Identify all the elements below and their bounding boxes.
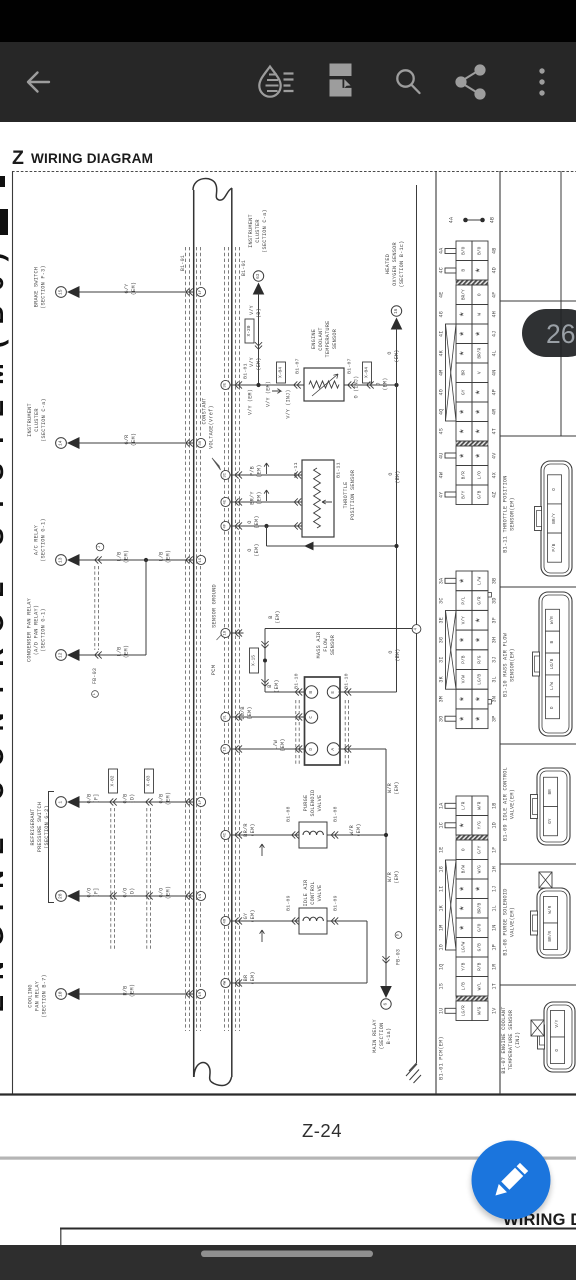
arrow into node 15 xyxy=(67,286,80,298)
svg-text:A: A xyxy=(330,748,336,751)
svg-text:(EM): (EM) xyxy=(250,971,256,984)
svg-text:10: 10 xyxy=(58,991,64,997)
svg-text:1Q: 1Q xyxy=(439,963,445,970)
svg-text:3L: 3L xyxy=(492,676,498,683)
PCM pin 1P xyxy=(196,797,205,806)
svg-text:O: O xyxy=(388,472,394,475)
svg-text:B: B xyxy=(461,269,467,272)
svg-text:(EM): (EM) xyxy=(166,792,172,805)
svg-text:B1-08: B1-08 xyxy=(333,806,339,822)
svg-text:4J: 4J xyxy=(492,330,498,337)
svg-text:4F: 4F xyxy=(224,523,228,528)
svg-text:(EM): (EM) xyxy=(250,909,256,922)
node 4 xyxy=(412,625,421,634)
pin 1B stub xyxy=(230,632,244,634)
svg-text:V/Y: V/Y xyxy=(555,1019,560,1027)
svg-text:O: O xyxy=(388,650,394,653)
svg-text:W/R: W/R xyxy=(477,801,483,809)
node J on harness link xyxy=(96,543,104,551)
purge solenoid valve B1-08 coil xyxy=(299,822,327,848)
svg-text:G/B: G/B xyxy=(159,793,165,803)
overflow menu icon xyxy=(539,68,544,95)
direction arrow up near BR/Y xyxy=(264,490,269,501)
svg-text:Y/B: Y/B xyxy=(461,962,467,970)
harness chevron xyxy=(95,556,99,563)
PCM 1x row 1M/1N xyxy=(456,918,472,938)
svg-text:O: O xyxy=(247,520,253,523)
PCM pin 3I xyxy=(221,470,230,479)
wire 4W return xyxy=(230,982,367,984)
svg-text:B1-08 PURGE SOLENOID: B1-08 PURGE SOLENOID xyxy=(503,888,509,955)
svg-text:(EM): (EM) xyxy=(166,550,172,563)
svg-text:OXYGEN SENSOR: OXYGEN SENSOR xyxy=(392,242,398,286)
junction dot W/R xyxy=(384,833,388,837)
arrow into node 14 xyxy=(67,437,80,449)
svg-text:3P: 3P xyxy=(492,715,498,722)
PCM 4x connector tab xyxy=(445,453,456,458)
PCM pin 1N xyxy=(196,891,205,900)
svg-text:4A: 4A xyxy=(449,217,455,224)
PCM 1x connector tab xyxy=(445,823,456,828)
svg-text:3B: 3B xyxy=(492,578,498,585)
idle air control valve B1-09 coil xyxy=(299,908,327,934)
sensor ground drop to MAF B xyxy=(264,629,266,693)
harness chevron xyxy=(146,892,150,899)
svg-text:MASS AIR: MASS AIR xyxy=(316,632,322,659)
arrow up into node 63 xyxy=(253,283,265,295)
svg-text:O: O xyxy=(387,351,393,354)
svg-text:GY: GY xyxy=(243,912,249,919)
svg-text:W/R: W/R xyxy=(349,825,355,835)
svg-text:3D: 3D xyxy=(492,597,498,604)
pencil edit icon xyxy=(491,1163,528,1200)
PCM pin 3L xyxy=(221,712,230,721)
wire to pin xyxy=(78,654,147,656)
svg-text:(EM): (EM) xyxy=(124,550,130,563)
svg-text:ENGINE: ENGINE xyxy=(311,329,317,349)
svg-text:V/W: V/W xyxy=(461,675,467,683)
PCM pin 1B sensor ground xyxy=(221,628,230,637)
svg-text:L/W: L/W xyxy=(550,682,555,690)
svg-text:B/O: B/O xyxy=(477,246,483,254)
svg-text:SENSOR(EM): SENSOR(EM) xyxy=(510,648,516,682)
arrow up into node 16 xyxy=(391,318,403,330)
svg-text:Z: Z xyxy=(12,147,24,169)
svg-text:VALVE(EM): VALVE(EM) xyxy=(510,907,516,937)
harness chevron xyxy=(110,798,114,805)
svg-text:4S: 4S xyxy=(439,428,445,435)
svg-text:Z-24: Z-24 xyxy=(302,1120,342,1141)
svg-text:(EM): (EM) xyxy=(247,706,253,719)
svg-text:X-15: X-15 xyxy=(251,655,257,666)
PCM 1x row 1C/1D xyxy=(456,816,472,836)
connector node 15 xyxy=(56,287,67,298)
PCM 4x row 4U/4V xyxy=(456,446,472,466)
MAF pin C xyxy=(305,711,317,723)
dashed harness link between relay wires xyxy=(94,566,96,650)
svg-text:B1-09 IDLE AIR CONTROL: B1-09 IDLE AIR CONTROL xyxy=(503,767,509,841)
svg-text:4I: 4I xyxy=(224,833,228,838)
svg-text:V/Y: V/Y xyxy=(249,357,255,367)
svg-text:3E: 3E xyxy=(224,382,228,387)
wire 3E to ECT sensor xyxy=(230,384,304,386)
svg-text:LG/W: LG/W xyxy=(461,942,467,953)
svg-text:VALVE: VALVE xyxy=(317,795,323,812)
svg-text:1F: 1F xyxy=(492,846,498,853)
svg-text:3A: 3A xyxy=(439,578,445,585)
junction dot on 4F wire xyxy=(264,524,268,528)
svg-text:VALVE: VALVE xyxy=(317,885,323,902)
PCM 3x row 3C/3D xyxy=(456,591,472,611)
svg-text:3K: 3K xyxy=(439,676,445,683)
search icon xyxy=(397,70,419,93)
page number badge 26 xyxy=(522,309,576,357)
svg-text:*: * xyxy=(459,408,471,415)
engine coolant temperature sensor B1-07 box xyxy=(304,368,344,401)
svg-text:4T: 4T xyxy=(492,428,498,435)
svg-text:P/B: P/B xyxy=(250,466,256,476)
svg-text:4M: 4M xyxy=(439,369,445,376)
svg-text:1V: 1V xyxy=(492,1007,498,1014)
harness chevron xyxy=(110,892,114,899)
chevron on cluster wire xyxy=(255,342,262,346)
svg-text:63: 63 xyxy=(256,273,261,279)
svg-text:1M: 1M xyxy=(439,924,445,931)
svg-text:3M: 3M xyxy=(439,696,445,703)
svg-text:4K: 4K xyxy=(439,350,445,357)
svg-text:16: 16 xyxy=(394,308,399,314)
svg-text:*: * xyxy=(475,408,487,415)
svg-text:*: * xyxy=(459,715,471,722)
svg-text:(EM): (EM) xyxy=(356,823,362,836)
svg-text:1O: 1O xyxy=(439,944,445,951)
svg-text:(EM): (EM) xyxy=(131,282,137,295)
svg-text:SOLENOID: SOLENOID xyxy=(310,790,316,817)
svg-text:3C: 3C xyxy=(439,597,445,604)
shield hatch dashed lines inside PCM right edge xyxy=(224,247,226,1031)
svg-text:4B: 4B xyxy=(492,247,498,254)
svg-text:*: * xyxy=(459,822,471,829)
PCM 3x row 3G/3H xyxy=(456,630,472,650)
wire to pin 1N xyxy=(78,895,195,897)
svg-text:(EM): (EM) xyxy=(256,357,262,370)
svg-text:G/R: G/R xyxy=(477,596,483,604)
inline connector X-02 xyxy=(109,769,118,793)
next page top rule xyxy=(60,1228,576,1230)
svg-text:3E: 3E xyxy=(439,617,445,624)
clipped bold section title ENGINE CONTROL SYSTEM on left edge xyxy=(0,176,5,187)
svg-text:1N: 1N xyxy=(492,924,498,931)
svg-text:V/Y (EM): V/Y (EM) xyxy=(266,381,272,407)
svg-text:(EM): (EM) xyxy=(257,464,263,477)
svg-text:W/R: W/R xyxy=(548,905,553,913)
wire MAF E to sensor return xyxy=(339,691,397,693)
connector node 14 xyxy=(56,438,67,449)
svg-text:P/B: P/B xyxy=(552,543,557,551)
svg-text:(SECTION C-a): (SECTION C-a) xyxy=(41,398,47,442)
svg-text:SENSOR GROUND: SENSOR GROUND xyxy=(212,584,218,628)
svg-text:FAN RELAY: FAN RELAY xyxy=(35,980,41,1011)
svg-text:3L: 3L xyxy=(224,714,228,719)
floating action button shadow xyxy=(471,1144,551,1224)
svg-text:3J: 3J xyxy=(492,656,498,663)
svg-text:1A: 1A xyxy=(439,802,445,809)
svg-text:CLUSTER: CLUSTER xyxy=(255,219,261,243)
svg-text:B: B xyxy=(308,691,314,694)
svg-text:O (INJ): O (INJ) xyxy=(354,376,360,399)
svg-text:PURGE: PURGE xyxy=(303,795,309,812)
svg-text:4L: 4L xyxy=(492,350,498,357)
PCM 4x connector tab xyxy=(445,492,456,497)
B1-07 engine coolant temperature sensor keyway cross xyxy=(531,1020,544,1036)
svg-text:COOLING: COOLING xyxy=(28,984,34,1008)
PCM 4x row 4M/4N xyxy=(456,363,472,383)
PCM 3x row 3A/3B xyxy=(456,571,472,591)
wire to pin 1R xyxy=(78,993,195,995)
connector node 28 xyxy=(56,891,67,902)
PCM 4x row 4G/4H xyxy=(456,305,472,325)
wire ECT to oxygen sensor junction xyxy=(344,384,397,386)
svg-text:(D): (D) xyxy=(130,793,136,803)
svg-text:3G: 3G xyxy=(439,637,445,644)
svg-text:V/Y (EM): V/Y (EM) xyxy=(248,389,254,415)
PCM 4x row 4O/4P xyxy=(456,383,472,403)
svg-text:(EM): (EM) xyxy=(275,610,281,623)
B1-08 purge solenoid valve keyway cross xyxy=(539,872,552,888)
PCM 1x row 1S/1T xyxy=(456,977,472,997)
svg-text:3N: 3N xyxy=(492,696,498,703)
direction arrow up near GY xyxy=(260,930,265,942)
svg-text:3I: 3I xyxy=(439,656,445,663)
svg-text:(SECTION B-1c): (SECTION B-1c) xyxy=(399,240,405,287)
svg-text:(SECTION C-a): (SECTION C-a) xyxy=(262,209,268,253)
svg-text:X-03: X-03 xyxy=(146,775,152,786)
svg-text:B: B xyxy=(267,684,273,687)
PCM 1x row 1O/1P xyxy=(456,938,472,958)
diagram top border xyxy=(12,171,576,173)
PCM pin 4E xyxy=(221,497,230,506)
svg-text:1D: 1D xyxy=(224,746,228,751)
PCM 4x hatch separator xyxy=(456,280,488,285)
svg-text:L/B: L/B xyxy=(117,646,123,656)
arrow down into main relay node xyxy=(380,986,392,998)
harness chevron xyxy=(186,556,190,563)
svg-text:1J: 1J xyxy=(492,885,498,892)
svg-text:4W: 4W xyxy=(224,980,228,985)
svg-text:1P: 1P xyxy=(492,944,498,951)
svg-text:(D): (D) xyxy=(130,887,136,897)
svg-text:G/B: G/B xyxy=(477,943,483,951)
svg-text:4C: 4C xyxy=(439,267,445,274)
svg-text:FB-03: FB-03 xyxy=(92,668,98,684)
home indicator pill xyxy=(201,1251,373,1258)
svg-text:B1-08: B1-08 xyxy=(286,806,292,822)
PCM pin 4I xyxy=(221,830,230,839)
svg-text:*: * xyxy=(459,452,471,459)
svg-text:*: * xyxy=(459,578,471,585)
wire 3I to TPS xyxy=(230,474,302,476)
svg-text:G/B: G/B xyxy=(123,793,129,803)
wire down to purge junction xyxy=(385,749,387,990)
ink-drop icon xyxy=(259,67,293,97)
svg-text:B1-10: B1-10 xyxy=(294,673,300,689)
svg-text:Y/G: Y/G xyxy=(477,821,483,829)
svg-text:B1-07: B1-07 xyxy=(347,358,353,374)
connector node 12 xyxy=(56,650,67,661)
svg-text:(SECTION G-1): (SECTION G-1) xyxy=(41,608,47,652)
PCM 4x connector tab xyxy=(445,249,456,254)
page separator xyxy=(0,1157,576,1160)
svg-text:(SECTION: (SECTION xyxy=(379,1023,385,1050)
svg-text:B1-01: B1-01 xyxy=(180,255,186,271)
svg-text:4P: 4P xyxy=(492,389,498,396)
svg-text:12: 12 xyxy=(58,652,64,658)
svg-text:*: * xyxy=(459,905,471,912)
PCM 3x connector tab xyxy=(445,716,456,721)
svg-text:O: O xyxy=(477,293,483,296)
svg-text:W/G: W/G xyxy=(477,1006,483,1014)
svg-text:*: * xyxy=(459,924,471,931)
svg-text:W/R: W/R xyxy=(387,872,393,882)
wire purge to W/R junction xyxy=(327,834,386,836)
svg-text:*: * xyxy=(475,696,487,703)
svg-text:6: 6 xyxy=(384,1003,389,1006)
B1-08 purge solenoid valve latch xyxy=(531,911,538,935)
svg-text:R/B: R/B xyxy=(477,962,483,970)
svg-text:3I: 3I xyxy=(224,473,228,478)
PCM 1x row 1I/1J xyxy=(456,879,472,899)
connector drawing B1-10 mass air flow sensor xyxy=(539,592,572,736)
svg-text:BR: BR xyxy=(243,975,249,982)
svg-text:SENSOR: SENSOR xyxy=(330,635,336,655)
floating action button xyxy=(472,1141,551,1220)
PCM 3x row 3M/3N xyxy=(456,689,472,709)
svg-text:R/B: R/B xyxy=(123,985,129,995)
svg-text:1T: 1T xyxy=(492,983,498,990)
svg-text:*: * xyxy=(459,885,471,892)
svg-text:L/W: L/W xyxy=(477,577,483,585)
svg-text:G/B: G/B xyxy=(477,490,483,498)
svg-text:(EM): (EM) xyxy=(395,648,401,661)
B1-09 idle air control valve latch xyxy=(531,795,538,819)
PCM 4x row 4K/4L xyxy=(456,344,472,364)
svg-text:G/O: G/O xyxy=(477,923,483,931)
PCM connector strip left edge xyxy=(193,190,195,1077)
svg-text:C: C xyxy=(308,716,314,719)
svg-text:(EM): (EM) xyxy=(257,491,263,504)
svg-text:B/R: B/R xyxy=(461,471,467,479)
svg-text:*: * xyxy=(459,330,471,337)
column divider at x436 xyxy=(435,171,437,1094)
svg-text:CONSTANT: CONSTANT xyxy=(202,398,208,425)
svg-text:X-04: X-04 xyxy=(364,367,370,378)
next page left border xyxy=(60,1229,62,1246)
MAF connector boundary dashes right xyxy=(344,700,346,765)
svg-text:*: * xyxy=(459,637,471,644)
svg-text:X-02: X-02 xyxy=(110,775,116,786)
svg-text:BR/R: BR/R xyxy=(548,931,553,942)
connector drawing B1-11 throttle position sensor xyxy=(541,461,572,576)
connector drawing B1-09 idle air control valve xyxy=(537,768,570,845)
svg-text:W: W xyxy=(477,313,483,316)
svg-text:VALVE(EM): VALVE(EM) xyxy=(510,789,516,819)
PCM 1x not-used cross marker xyxy=(446,860,457,950)
svg-text:1R: 1R xyxy=(199,991,203,996)
svg-text:1: 1 xyxy=(58,801,64,804)
wire 4E to TPS wiper xyxy=(230,501,302,503)
svg-text:(EM): (EM) xyxy=(394,781,400,794)
svg-text:(EM): (EM) xyxy=(394,870,400,883)
svg-text:R/G: R/G xyxy=(477,655,483,663)
svg-text:W/R: W/R xyxy=(550,616,555,624)
junction dot at X-15 xyxy=(263,659,267,663)
svg-text:COOLANT: COOLANT xyxy=(318,327,324,351)
svg-text:B/W: B/W xyxy=(461,865,467,873)
svg-text:WIRING DIAGRAM: WIRING DIAGRAM xyxy=(31,151,153,166)
svg-text:1R: 1R xyxy=(492,963,498,970)
diagram left border xyxy=(12,172,14,1096)
svg-text:J: J xyxy=(98,546,102,548)
PCM 1x connector tab xyxy=(445,1008,456,1013)
vertical wire from cluster to 3E wire xyxy=(258,294,260,386)
svg-text:BR: BR xyxy=(548,789,553,795)
svg-text:W/L: W/L xyxy=(477,982,483,990)
PCM 1x row 1Q/1R xyxy=(456,957,472,977)
shield hatch dashed lines inside PCM left edge xyxy=(196,247,198,1031)
svg-text:B1-01: B1-01 xyxy=(241,260,247,276)
svg-text:4N: 4N xyxy=(492,369,498,376)
back arrow icon xyxy=(28,73,49,92)
svg-text:G/O: G/O xyxy=(123,887,129,897)
svg-text:D: D xyxy=(397,934,401,936)
svg-text:P/L: P/L xyxy=(461,596,467,604)
svg-text:E: E xyxy=(330,691,336,694)
harness chevron xyxy=(146,798,150,805)
svg-text:LG/B: LG/B xyxy=(477,674,483,685)
connector node 10 xyxy=(56,989,67,1000)
chevron on main relay wire xyxy=(382,956,389,960)
PCM 1x hatch separator xyxy=(456,835,488,840)
svg-text:(EM): (EM) xyxy=(274,679,280,692)
svg-text:P/B: P/B xyxy=(461,655,467,663)
svg-text:30: 30 xyxy=(199,440,203,445)
svg-text:*: * xyxy=(475,452,487,459)
svg-text:*: * xyxy=(475,267,487,274)
PCM 1x row 1A/1B xyxy=(456,796,472,816)
svg-text:4E: 4E xyxy=(224,499,228,504)
svg-text:V: V xyxy=(477,371,483,374)
svg-text:*: * xyxy=(459,350,471,357)
svg-text:(SECTION G-1): (SECTION G-1) xyxy=(41,518,47,562)
svg-text:A/C RELAY: A/C RELAY xyxy=(34,524,40,555)
svg-text:FLOW: FLOW xyxy=(323,638,329,652)
svg-text:BR/Y: BR/Y xyxy=(461,289,467,300)
inline connector X-03 xyxy=(145,769,154,793)
PCM pin 3E xyxy=(221,380,230,389)
svg-text:[F]: [F] xyxy=(94,793,100,803)
svg-text:O: O xyxy=(247,548,253,551)
junction dot oxygen sensor wire xyxy=(394,383,398,387)
svg-text:TEMPERATURE SENSOR: TEMPERATURE SENSOR xyxy=(508,1010,514,1071)
shield hatch dashed lines right of PCM xyxy=(235,247,237,1031)
B1-07 engine coolant temperature sensor latch xyxy=(538,1025,545,1049)
svg-text:O: O xyxy=(552,488,557,491)
svg-text:4Z: 4Z xyxy=(492,491,498,498)
svg-text:4U: 4U xyxy=(439,452,445,459)
svg-text:BR/B: BR/B xyxy=(477,903,483,914)
svg-text:MAIN RELAY: MAIN RELAY xyxy=(372,1019,378,1053)
dashed harness links through X-02/X-03 xyxy=(110,808,112,950)
